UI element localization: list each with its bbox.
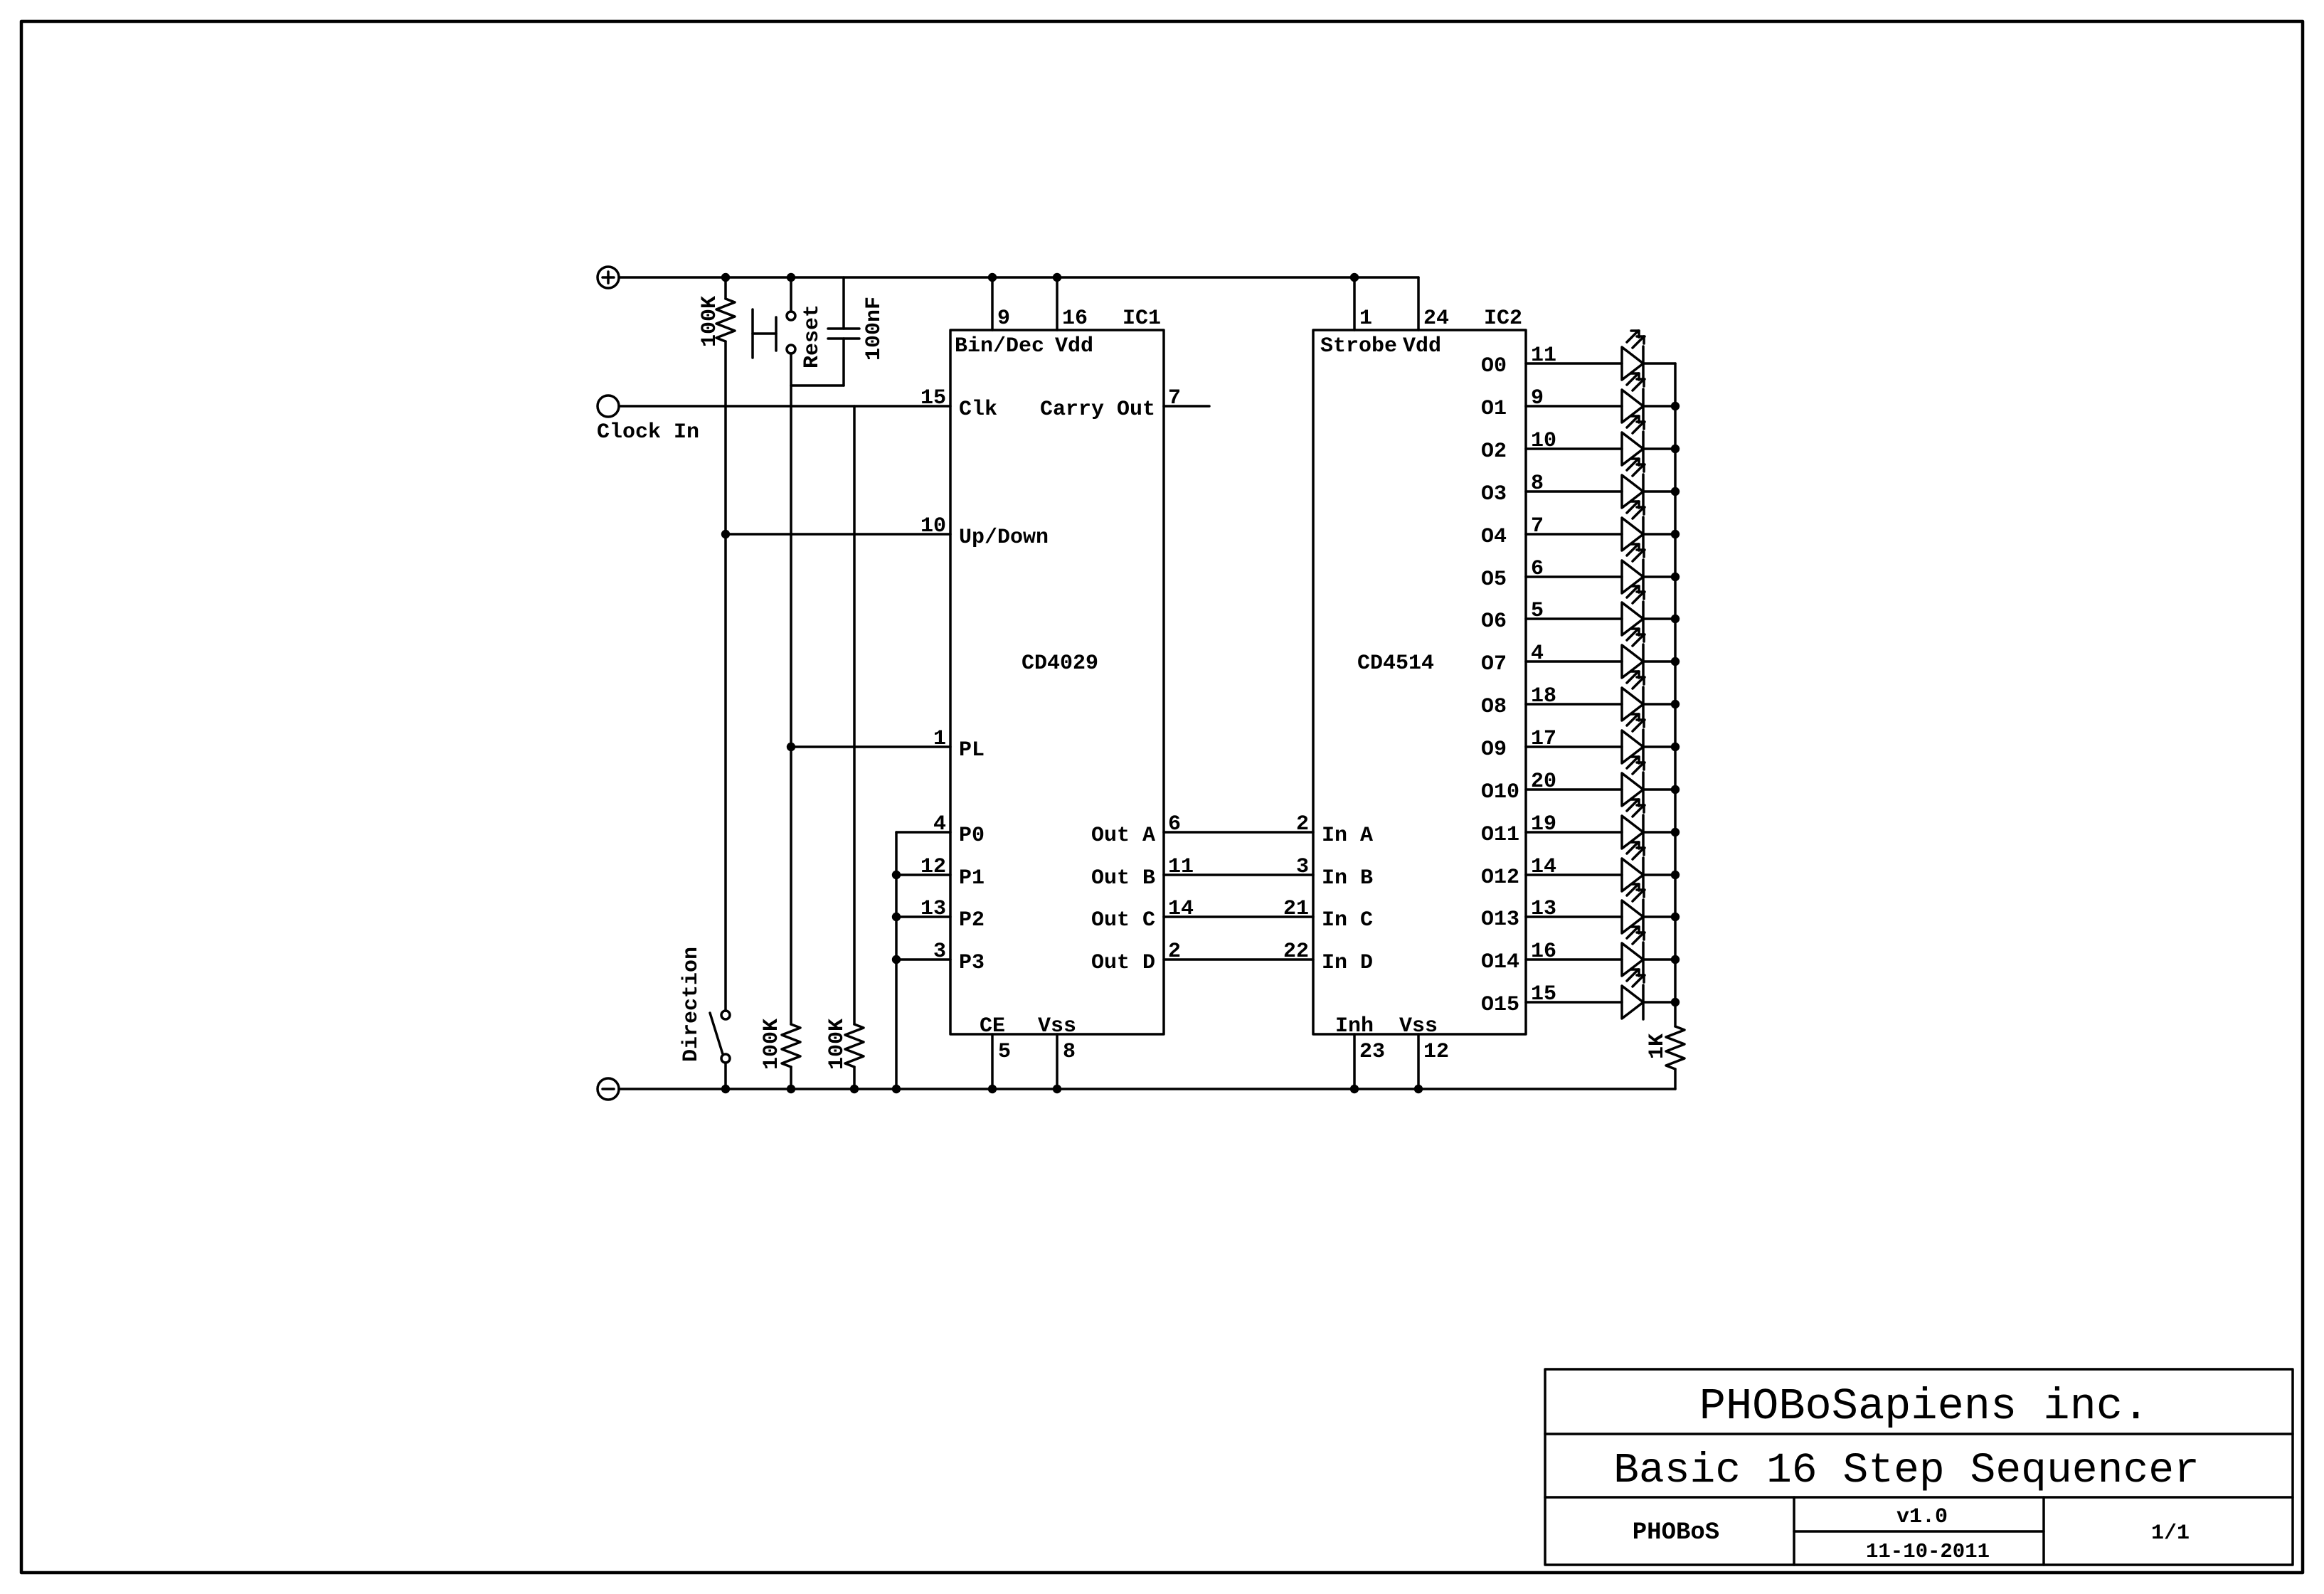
svg-text:7: 7 [1531,514,1544,538]
svg-text:1K: 1K [1645,1034,1670,1059]
svg-text:Vdd: Vdd [1403,334,1441,358]
svg-text:P3: P3 [959,951,985,975]
svg-text:10: 10 [920,514,946,538]
svg-text:4: 4 [1531,642,1544,666]
svg-text:PHOBoS: PHOBoS [1633,1519,1719,1546]
svg-text:2: 2 [1296,812,1309,836]
svg-text:12: 12 [920,855,946,879]
svg-text:O6: O6 [1481,610,1507,634]
svg-text:O15: O15 [1481,993,1519,1017]
svg-text:Out D: Out D [1091,951,1155,975]
svg-text:Out B: Out B [1091,866,1155,891]
svg-text:11-10-2011: 11-10-2011 [1866,1540,1990,1563]
svg-text:6: 6 [1531,557,1544,581]
svg-text:v1.0: v1.0 [1896,1505,1948,1529]
svg-text:Carry Out: Carry Out [1040,398,1155,422]
svg-text:Clock In: Clock In [597,420,699,445]
svg-text:Vss: Vss [1399,1014,1438,1038]
svg-text:In B: In B [1322,866,1373,891]
svg-text:17: 17 [1531,727,1556,751]
svg-text:PHOBoSapiens inc.: PHOBoSapiens inc. [1699,1381,2150,1432]
svg-text:11: 11 [1168,855,1194,879]
svg-text:O9: O9 [1481,738,1507,762]
svg-text:24: 24 [1423,307,1449,331]
svg-text:PL: PL [959,738,985,763]
svg-text:1/1: 1/1 [2151,1521,2190,1546]
svg-text:3: 3 [1296,855,1309,879]
svg-text:5: 5 [998,1040,1011,1064]
svg-text:O5: O5 [1481,568,1507,592]
svg-text:O1: O1 [1481,397,1507,421]
svg-text:100K: 100K [698,296,722,347]
svg-text:12: 12 [1423,1040,1449,1064]
svg-text:22: 22 [1283,940,1309,964]
svg-text:CD4514: CD4514 [1357,652,1434,676]
svg-text:O8: O8 [1481,695,1507,719]
svg-text:18: 18 [1531,684,1556,708]
svg-text:CE: CE [980,1014,1005,1038]
svg-text:1: 1 [933,727,946,751]
svg-text:Direction: Direction [679,947,704,1062]
svg-text:15: 15 [920,386,946,410]
svg-text:P0: P0 [959,824,985,848]
svg-text:16: 16 [1531,940,1556,964]
svg-text:8: 8 [1063,1040,1076,1064]
svg-text:100nF: 100nF [862,297,886,361]
svg-text:3: 3 [933,940,946,964]
svg-text:Clk: Clk [959,398,997,422]
svg-text:P1: P1 [959,866,985,891]
svg-text:1: 1 [1359,307,1372,331]
svg-text:9: 9 [997,307,1010,331]
svg-text:O3: O3 [1481,482,1507,506]
svg-text:Vdd: Vdd [1055,334,1093,358]
svg-text:In A: In A [1322,824,1373,848]
svg-text:In D: In D [1322,951,1373,975]
svg-text:20: 20 [1531,770,1556,794]
svg-text:O14: O14 [1481,950,1519,974]
svg-text:13: 13 [920,897,946,921]
svg-text:Basic 16 Step Sequencer: Basic 16 Step Sequencer [1613,1446,2200,1494]
svg-text:CD4029: CD4029 [1022,652,1098,676]
svg-text:Out A: Out A [1091,824,1155,848]
svg-text:O0: O0 [1481,354,1507,378]
svg-text:10: 10 [1531,429,1556,453]
svg-text:6: 6 [1168,812,1181,836]
svg-text:5: 5 [1531,599,1544,623]
svg-text:Vss: Vss [1038,1014,1076,1038]
svg-text:7: 7 [1168,386,1181,410]
svg-text:15: 15 [1531,982,1556,1006]
svg-text:11: 11 [1531,344,1556,368]
svg-text:O11: O11 [1481,823,1519,847]
svg-text:Up/Down: Up/Down [959,526,1049,550]
svg-text:Bin/Dec: Bin/Dec [955,334,1044,358]
svg-text:O10: O10 [1481,780,1519,804]
svg-text:100K: 100K [825,1019,849,1070]
svg-text:P2: P2 [959,908,985,933]
svg-text:8: 8 [1531,472,1544,496]
svg-text:21: 21 [1283,897,1309,921]
svg-text:Inh: Inh [1335,1014,1374,1038]
svg-text:19: 19 [1531,812,1556,836]
svg-text:In C: In C [1322,908,1373,933]
svg-text:IC2: IC2 [1484,307,1522,331]
svg-text:O4: O4 [1481,525,1507,549]
svg-text:IC1: IC1 [1123,307,1161,331]
svg-text:13: 13 [1531,897,1556,921]
svg-text:O12: O12 [1481,866,1519,890]
svg-text:O13: O13 [1481,908,1519,932]
svg-text:23: 23 [1359,1040,1385,1064]
svg-text:Reset: Reset [800,304,824,368]
svg-text:O7: O7 [1481,652,1507,676]
svg-text:4: 4 [933,812,946,836]
svg-text:2: 2 [1168,940,1181,964]
svg-text:Out C: Out C [1091,908,1155,933]
svg-text:14: 14 [1531,855,1556,879]
svg-text:16: 16 [1062,307,1088,331]
svg-text:14: 14 [1168,897,1194,921]
svg-text:O2: O2 [1481,440,1507,464]
svg-text:100K: 100K [760,1019,784,1070]
svg-text:9: 9 [1531,386,1544,410]
svg-text:Strobe: Strobe [1320,334,1397,358]
